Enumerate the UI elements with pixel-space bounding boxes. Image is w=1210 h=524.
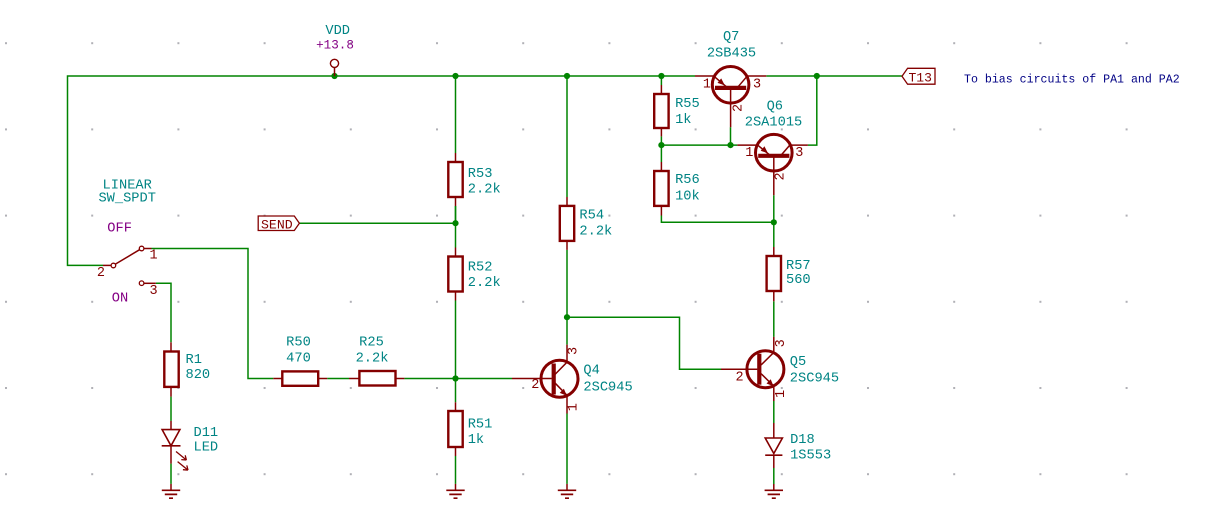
svg-text:To bias circuits of PA1 and PA: To bias circuits of PA1 and PA2 — [964, 74, 1180, 87]
svg-text:R1: R1 — [186, 353, 202, 368]
svg-text:2.2k: 2.2k — [468, 183, 501, 198]
svg-text:2SA1015: 2SA1015 — [745, 116, 803, 131]
svg-text:1: 1 — [567, 403, 582, 411]
svg-text:3: 3 — [150, 284, 158, 299]
svg-text:R50: R50 — [286, 336, 311, 351]
svg-text:SW_SPDT: SW_SPDT — [98, 192, 156, 207]
svg-text:470: 470 — [286, 352, 311, 367]
svg-text:Q6: Q6 — [767, 99, 783, 114]
svg-text:OFF: OFF — [107, 222, 132, 237]
svg-text:2SB435: 2SB435 — [707, 46, 756, 61]
svg-text:D11: D11 — [194, 426, 219, 441]
svg-text:1: 1 — [745, 146, 753, 161]
svg-text:3: 3 — [753, 77, 761, 92]
svg-text:2: 2 — [736, 371, 744, 386]
svg-text:R52: R52 — [468, 260, 493, 275]
svg-text:820: 820 — [186, 368, 211, 383]
svg-text:1: 1 — [774, 390, 789, 398]
svg-text:R55: R55 — [675, 97, 700, 112]
svg-text:1k: 1k — [468, 433, 484, 448]
svg-text:560: 560 — [786, 273, 811, 288]
svg-text:1k: 1k — [675, 113, 691, 128]
svg-text:LED: LED — [194, 440, 219, 455]
svg-text:10k: 10k — [675, 189, 700, 204]
svg-text:2.2k: 2.2k — [579, 225, 612, 240]
svg-text:2: 2 — [774, 172, 789, 180]
svg-text:2.2k: 2.2k — [356, 352, 389, 367]
svg-text:1: 1 — [150, 249, 158, 264]
svg-text:ON: ON — [112, 292, 128, 307]
svg-text:Q5: Q5 — [790, 355, 806, 370]
svg-text:3: 3 — [774, 339, 789, 347]
svg-text:R53: R53 — [468, 167, 493, 182]
svg-text:2SC945: 2SC945 — [583, 380, 632, 395]
svg-text:SEND: SEND — [261, 217, 293, 232]
svg-text:R54: R54 — [579, 209, 604, 224]
svg-text:2: 2 — [97, 266, 105, 281]
svg-text:3: 3 — [795, 146, 803, 161]
svg-text:R25: R25 — [359, 336, 384, 351]
svg-text:D18: D18 — [790, 433, 815, 448]
svg-text:1S553: 1S553 — [790, 449, 831, 464]
svg-text:Q4: Q4 — [583, 364, 599, 379]
svg-text:3: 3 — [567, 347, 582, 355]
svg-text:Q7: Q7 — [723, 30, 739, 45]
svg-text:+13.8: +13.8 — [316, 39, 354, 53]
svg-text:2SC945: 2SC945 — [790, 371, 839, 386]
svg-text:R51: R51 — [468, 417, 493, 432]
svg-text:2.2k: 2.2k — [468, 276, 501, 291]
svg-text:2: 2 — [732, 104, 747, 112]
svg-text:R57: R57 — [786, 259, 811, 274]
svg-text:T13: T13 — [909, 70, 932, 85]
svg-text:R56: R56 — [675, 173, 700, 188]
svg-text:2: 2 — [531, 378, 539, 393]
svg-text:1: 1 — [703, 77, 711, 92]
svg-text:VDD: VDD — [325, 24, 350, 39]
